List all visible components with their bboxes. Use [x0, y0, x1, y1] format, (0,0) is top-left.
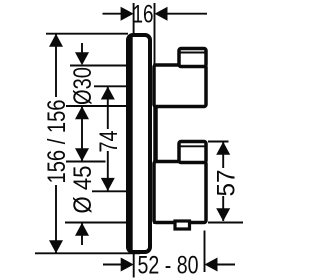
dimension D30 lower extension line	[66, 105, 127, 107]
dimension 74 lower extension line (bottom knob centerline)	[92, 190, 127, 192]
dimension 16 right arrow	[155, 7, 208, 21]
dimension 57 upper extension line	[208, 141, 229, 143]
dimension 57 dimension line with arrows	[216, 142, 230, 222]
dimension D45 upper extension line	[66, 161, 106, 163]
dimension 156/156 bottom extension line	[35, 252, 140, 254]
dimension 57 lower extension line	[208, 222, 243, 224]
dimension 52-80 left arrow	[103, 258, 134, 272]
dimension 156/156 top extension line	[46, 33, 128, 35]
dimension 52-80 right arrow	[205, 258, 236, 272]
dimension 156/156 dimension line with arrows	[49, 34, 63, 253]
dimension D30 upper extension line	[70, 65, 127, 67]
dimension 74 dimension line with arrows	[101, 87, 115, 191]
svg-text:Ø30: Ø30	[69, 67, 97, 105]
dimension D45 lower arrow	[75, 223, 89, 245]
top knob small block	[179, 49, 206, 67]
dimension 74 upper extension line (top knob centerline)	[94, 85, 127, 87]
svg-text:57: 57	[213, 170, 241, 197]
svg-text:52 - 80: 52 - 80	[138, 252, 199, 280]
svg-text:74: 74	[95, 130, 123, 152]
dimension D45 lower extension line	[65, 222, 127, 224]
dimension 52-80 right extension line	[204, 231, 206, 273]
top knob body	[154, 65, 206, 107]
wall plate (escutcheon, side view)	[128, 35, 150, 252]
safety stop tab under bottom knob	[175, 221, 190, 229]
dimension D30 lower arrow and connector to D45	[75, 106, 89, 161]
svg-text:Ø 45: Ø 45	[69, 166, 97, 214]
dimension 16 left arrow	[103, 7, 134, 21]
base sleeve edge between knobs	[153, 64, 158, 225]
bottom knob body	[154, 162, 206, 223]
bottom knob small block	[179, 142, 206, 163]
dimension 16 extension line right	[154, 3, 156, 64]
dimension 16 extension line left	[133, 3, 135, 33]
dimension D45 upper arrow	[75, 148, 89, 161]
dimension D30 upper arrow	[75, 43, 89, 65]
dimension 52-80 left extension line	[133, 254, 135, 278]
svg-text:156 / 156: 156 / 156	[43, 100, 71, 184]
svg-text:16: 16	[133, 1, 154, 29]
